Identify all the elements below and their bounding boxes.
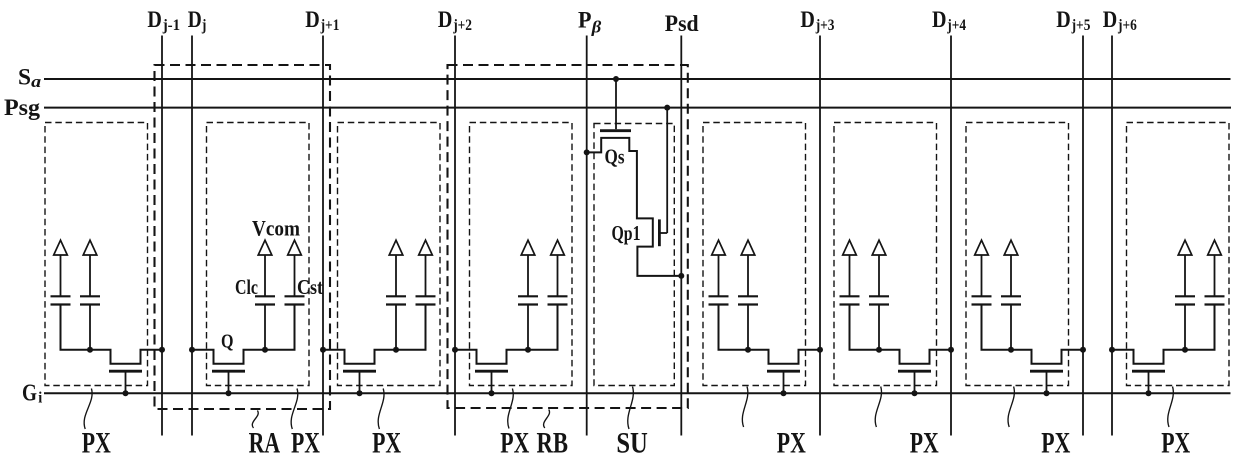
svg-text:D: D [438,7,453,32]
svg-text:PX: PX [777,426,806,459]
svg-text:Cst: Cst [297,275,323,299]
svg-text:G: G [22,381,37,407]
svg-text:PX: PX [1041,426,1070,459]
svg-text:D: D [1103,7,1118,32]
svg-text:a: a [31,72,42,91]
svg-text:β: β [591,17,602,36]
svg-text:i: i [38,390,42,407]
svg-text:D: D [305,7,320,32]
svg-text:Clc: Clc [235,275,258,299]
svg-text:D: D [1056,7,1071,32]
svg-text:j+1: j+1 [320,17,340,34]
svg-text:j+5: j+5 [1071,17,1091,34]
svg-text:PX: PX [291,426,320,459]
svg-text:Psd: Psd [665,11,699,36]
svg-text:PX: PX [1161,426,1190,459]
svg-text:D: D [932,7,947,32]
svg-text:j+4: j+4 [946,17,966,34]
svg-text:PX: PX [82,426,111,459]
svg-text:j: j [201,17,206,34]
svg-text:D: D [147,7,162,32]
svg-text:PX: PX [910,426,939,459]
svg-text:D: D [800,7,815,32]
svg-text:PX: PX [500,426,529,459]
svg-text:S: S [18,65,31,90]
svg-text:j+3: j+3 [815,17,835,34]
svg-text:j+2: j+2 [452,17,472,34]
svg-text:j-1: j-1 [162,17,180,34]
svg-text:j+6: j+6 [1117,17,1137,34]
svg-text:PX: PX [372,426,401,459]
svg-text:Vcom: Vcom [252,216,300,241]
svg-text:D: D [188,7,202,32]
svg-text:Qs: Qs [605,145,625,169]
svg-text:Psg: Psg [4,95,41,120]
svg-text:P: P [578,8,592,33]
svg-text:RB: RB [537,426,569,459]
svg-text:Q: Q [221,331,234,353]
svg-text:RA: RA [249,426,281,459]
svg-text:Qp1: Qp1 [612,221,641,245]
svg-text:SU: SU [616,426,648,459]
